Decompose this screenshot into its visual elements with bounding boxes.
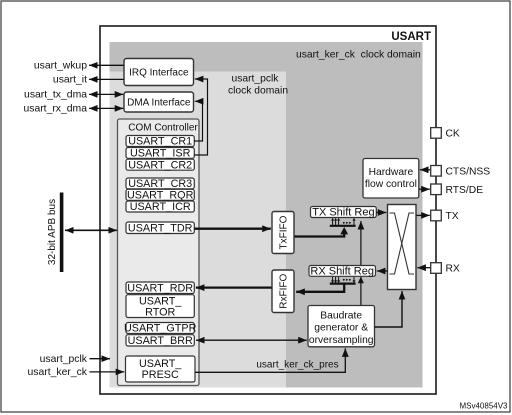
svg-text:DMA Interface: DMA Interface [127,98,191,109]
pin CTS/NSS [431,166,442,177]
svg-text:usart_wkup: usart_wkup [34,61,87,72]
svg-text:orversampling: orversampling [309,335,374,346]
svg-text:RTOR: RTOR [145,306,175,318]
DMA Interface box [124,92,194,112]
wire usart_tx_dma to DMA Interface [89,93,123,95]
TxFIFO box [272,212,294,254]
svg-text:32-bit APB bus: 32-bit APB bus [47,199,58,265]
svg-text:USART_CR3: USART_CR3 [128,178,192,190]
svg-text:RxFIFO: RxFIFO [279,273,290,308]
svg-text:generator &: generator & [314,323,368,334]
wire USART_PRESC to Baudrate generator (usart_ker_ck_pres) [195,348,345,372]
arrowhead TxFIFO to TX shift glyph [340,227,348,235]
Hardware flow control box [363,159,419,199]
register USART_RTOR [126,295,194,318]
APB bus bar [60,193,64,273]
wire USART_TDR to TxFIFO (datapath) [195,228,271,230]
usart_ker_ck clock domain region [110,42,423,388]
RX shift register glyph [330,277,356,284]
svg-text:usart_pclk: usart_pclk [232,73,280,84]
TX shift register glyph [330,218,356,226]
svg-text:CK: CK [446,129,460,140]
wire RxFIFO to USART_RDR (datapath) [196,286,272,288]
svg-text:TX Shift Reg: TX Shift Reg [312,207,374,219]
pin TX [431,210,442,221]
svg-text:usart_ker_ck_pres: usart_ker_ck_pres [256,359,338,370]
register USART_RDR [126,282,194,294]
svg-text:TX: TX [446,211,459,222]
svg-text:RTS/DE: RTS/DE [446,185,484,196]
wire USART_ISR to IRQ Interface [194,79,208,155]
wire Hardware flow control to RTS pin [419,188,430,190]
svg-text:RX Shift Reg: RX Shift Reg [310,266,374,278]
svg-text:USART_CR1: USART_CR1 [128,136,192,148]
svg-text:USART: USART [391,31,431,43]
pin RX [431,263,442,274]
svg-text:USART_CR2: USART_CR2 [128,159,192,171]
wire switch to RX Shift Reg [377,270,388,272]
svg-text:usart_ker_ck: usart_ker_ck [28,367,88,378]
register USART_ICR [126,201,194,212]
COM Controller box [118,119,200,386]
wire Baudrate generator clock to shift registers [360,221,362,306]
wire usart_rx_dma to DMA Interface [89,107,123,109]
register USART_CR1 [126,136,194,147]
svg-text:usart_rx_dma: usart_rx_dma [23,104,87,115]
svg-text:USART_ICR: USART_ICR [130,201,191,213]
switch cross line A [390,213,415,274]
wire RX shift register glyph to RxFIFO (datapath) [296,284,344,292]
wire CTS pin to Hardware flow control [420,169,431,171]
svg-text:MSv40854V3: MSv40854V3 [459,401,508,410]
USART block outline [100,26,436,394]
RxFIFO box [272,270,294,313]
TX Shift Reg box [311,207,377,218]
TX/RX switch box U1 [388,205,417,290]
svg-text:usart_ker_ck clock domain: usart_ker_ck clock domain [296,50,421,61]
wire TxFIFO to TX shift register glyph (datapath) [295,234,345,237]
wire Baudrate generator to switch [375,291,402,327]
wire usart_pclk [90,358,111,360]
svg-text:usart_it: usart_it [53,75,87,86]
wire USART_BRR to Baudrate generator [196,339,307,341]
arrowhead baudrate clock to RX Shift Reg [358,276,364,283]
RX Shift Reg box [309,266,376,277]
usart_pclk clock domain region [110,72,287,388]
svg-text:USART_GTPR: USART_GTPR [124,323,197,335]
svg-text:PRESC: PRESC [142,369,179,381]
svg-text:USART_RQR: USART_RQR [127,190,194,202]
wire usart_ker_ck to USART_PRESC [90,371,125,373]
svg-text:USART_TDR: USART_TDR [128,223,193,235]
svg-text:flow control: flow control [365,179,417,190]
svg-text:USART_: USART_ [139,358,182,370]
svg-text:RX: RX [446,264,460,275]
wire switch to TX pin [416,214,430,216]
register USART_CR2 [126,159,194,170]
register USART_PRESC [126,356,196,382]
register USART_ISR [126,148,194,159]
svg-text:usart_tx_dma: usart_tx_dma [24,90,87,101]
svg-text:USART_RDR: USART_RDR [127,283,193,295]
svg-text:USART_ISR: USART_ISR [130,148,191,160]
register USART_GTPR [126,323,194,334]
svg-text:Hardware: Hardware [369,167,414,178]
svg-text:USART_BRR: USART_BRR [128,335,193,347]
Baudrate generator box [308,306,375,347]
svg-text:TxFIFO: TxFIFO [279,215,290,249]
wire usart_it to IRQ Interface [89,78,124,80]
pin CK [431,128,442,139]
register USART_CR3 [126,178,194,189]
wire USART_CR1 to DMA Interface [194,101,203,141]
register USART_RQR [126,189,194,200]
pin RTS/DE [431,184,442,195]
wire APB bus to COM Controller [65,229,117,231]
svg-text:COM Controller: COM Controller [128,123,198,134]
svg-text:clock domain: clock domain [228,85,288,96]
switch cross line B [390,213,415,274]
svg-text:usart_pclk: usart_pclk [40,354,88,365]
svg-text:CTS/NSS: CTS/NSS [446,167,491,178]
register USART_BRR [126,335,194,346]
svg-text:Baudrate: Baudrate [320,310,362,321]
wire RX pin to switch [417,267,430,269]
svg-text:IRQ Interface: IRQ Interface [129,68,189,79]
wire TX Shift Reg to switch [377,212,387,214]
IRQ Interface box [124,59,194,86]
register USART_TDR [126,222,194,234]
wire usart_wkup to IRQ Interface [89,64,124,66]
